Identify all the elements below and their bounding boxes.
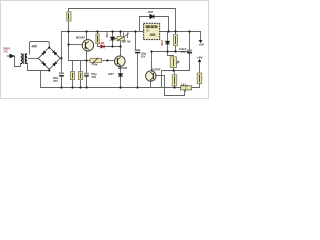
- svg-text:25V: 25V: [53, 79, 58, 83]
- svg-text:LED: LED: [99, 42, 104, 45]
- svg-text:4007: 4007: [108, 72, 114, 76]
- svg-text:25V: 25V: [181, 50, 186, 54]
- svg-text:BC547: BC547: [118, 66, 127, 70]
- svg-text:ZD1: ZD1: [105, 32, 109, 38]
- svg-text:+6V: +6V: [197, 55, 204, 59]
- svg-text:BC557: BC557: [76, 35, 85, 39]
- svg-text:4007: 4007: [160, 39, 164, 46]
- svg-text:+6V: +6V: [31, 45, 38, 49]
- svg-text:25V: 25V: [141, 54, 146, 58]
- svg-text:BC547: BC547: [152, 67, 161, 71]
- svg-text:4007: 4007: [148, 10, 154, 14]
- svg-text:50k: 50k: [93, 62, 98, 66]
- svg-text:LS1: LS1: [181, 82, 186, 86]
- svg-text:NC: NC: [127, 40, 131, 44]
- svg-text:NO: NO: [122, 40, 126, 44]
- svg-text:25V: 25V: [92, 75, 97, 79]
- svg-text:+6V: +6V: [198, 43, 205, 47]
